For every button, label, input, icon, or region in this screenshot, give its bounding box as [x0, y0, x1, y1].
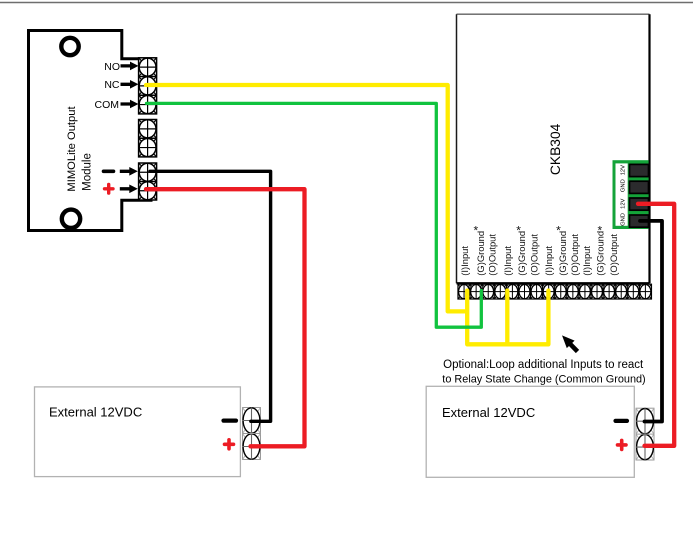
- svg-text:(G)Ground: (G)Ground: [475, 231, 486, 276]
- svg-text:(G)Ground: (G)Ground: [557, 231, 568, 276]
- svg-text:(O)Output: (O)Output: [608, 234, 619, 276]
- svg-text:*: *: [556, 224, 561, 238]
- svg-text:(I)Input: (I)Input: [459, 246, 470, 276]
- svg-text:12V: 12V: [620, 198, 626, 208]
- svg-text:Module: Module: [82, 153, 94, 191]
- svg-text:(G)Ground: (G)Ground: [594, 231, 605, 276]
- svg-text:MIMOLite Output: MIMOLite Output: [66, 106, 78, 192]
- svg-text:GND: GND: [620, 179, 626, 192]
- svg-text:(G)Ground: (G)Ground: [516, 231, 527, 276]
- svg-text:*: *: [597, 224, 602, 238]
- svg-text:CKB304: CKB304: [548, 123, 563, 175]
- svg-text:NC: NC: [104, 79, 120, 91]
- svg-text:12V: 12V: [620, 165, 626, 175]
- svg-text:*: *: [473, 224, 478, 238]
- svg-text:(I)Input: (I)Input: [502, 246, 513, 276]
- svg-text:(O)Output: (O)Output: [569, 234, 580, 276]
- svg-text:NO: NO: [104, 61, 120, 73]
- svg-text:COM: COM: [95, 99, 120, 111]
- svg-text:(O)Output: (O)Output: [528, 234, 539, 276]
- svg-text:*: *: [516, 224, 521, 238]
- svg-text:(I)Input: (I)Input: [543, 246, 554, 276]
- svg-text:External 12VDC: External 12VDC: [442, 405, 535, 420]
- svg-text:Optional:Loop additional Input: Optional:Loop additional Inputs to react: [443, 359, 644, 371]
- svg-text:GND: GND: [620, 213, 626, 226]
- svg-text:External 12VDC: External 12VDC: [49, 405, 142, 420]
- svg-text:(I)Input: (I)Input: [581, 246, 592, 276]
- svg-text:to Relay State Change (Common: to Relay State Change (Common Ground): [442, 374, 645, 386]
- svg-text:(O)Output: (O)Output: [487, 234, 498, 276]
